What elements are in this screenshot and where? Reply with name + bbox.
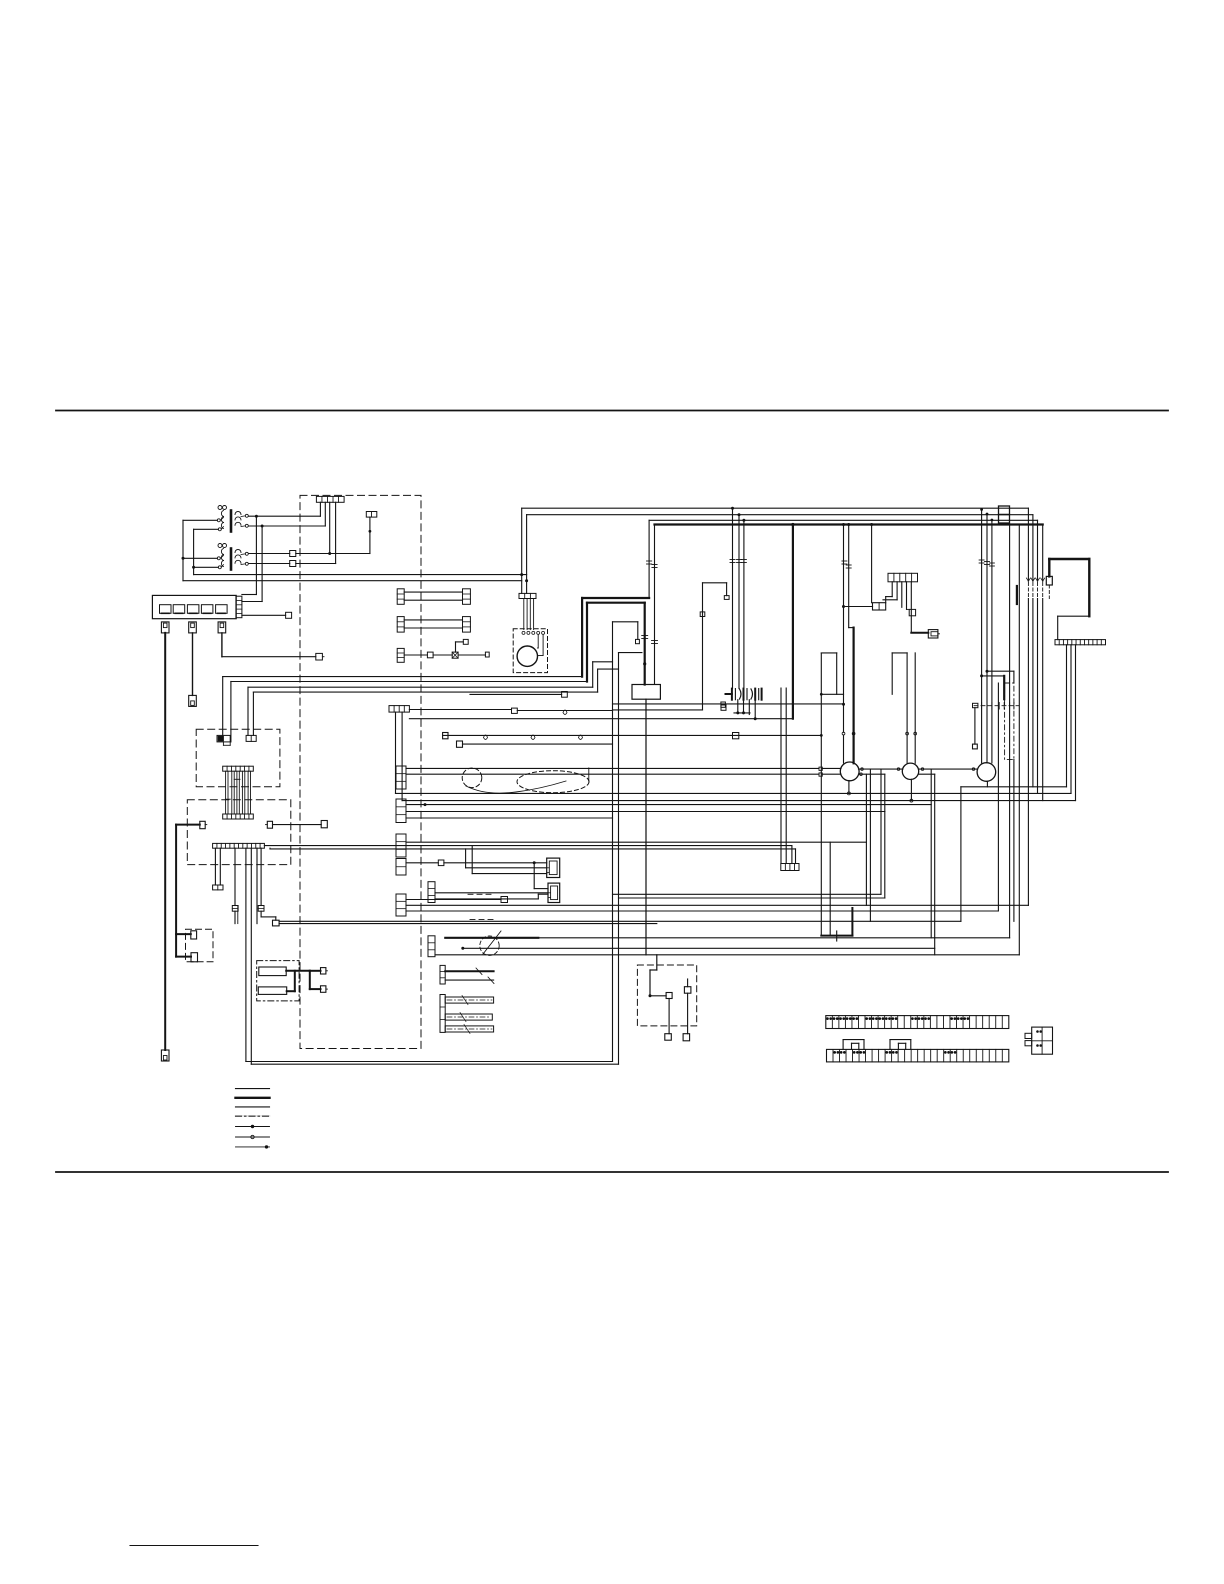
row 842 long: [406, 841, 866, 843]
connector D left: [200, 821, 207, 828]
plug2 jog v: [537, 894, 539, 899]
thick wire R2 out: [287, 990, 295, 992]
junction M4 tap2: [980, 674, 983, 677]
legend marker o: [251, 1135, 254, 1138]
array drop 3: [748, 700, 750, 715]
connector small mid: [512, 708, 518, 713]
strap loop 2: [890, 1040, 911, 1050]
plug drop v: [533, 863, 535, 889]
thick wire to F-b: [310, 988, 321, 990]
junction rail3 a: [742, 519, 745, 522]
thick hook right: [1088, 559, 1090, 616]
chain wire M2-M3: [859, 768, 903, 770]
connector tap 2: [700, 612, 705, 617]
lead 3 v: [221, 633, 223, 657]
thick stub right: [1003, 676, 1005, 699]
M3 feed 1: [906, 653, 908, 763]
fuse pigtail 1: [161, 622, 169, 633]
switch drop b: [687, 993, 689, 1033]
connector C1 end: [213, 885, 223, 890]
hook drop to comb: [1057, 616, 1059, 639]
drop C6: [260, 848, 262, 905]
pump terminals: [522, 631, 545, 634]
connector G3: [485, 652, 489, 657]
thick wire R1 out: [286, 970, 310, 972]
row 719: [409, 718, 793, 720]
junction M4 tap1: [986, 670, 989, 673]
junction thick box drop: [643, 662, 646, 665]
junction plug drop: [533, 861, 536, 864]
connector comb B lower: [223, 814, 254, 819]
switch end b: [683, 1034, 690, 1041]
corner drop 3: [1037, 520, 1039, 581]
lower comb feed long 2: [785, 688, 787, 864]
connector row744 left: [457, 741, 463, 747]
chain wire M3-M4: [919, 768, 978, 770]
legend marker x: [251, 1125, 254, 1128]
switch contact a: [666, 993, 672, 999]
connector break rail drops: [647, 561, 658, 568]
switch jog: [650, 969, 657, 971]
main rail 3: [649, 519, 1037, 521]
lead 3 terminal: [316, 653, 324, 660]
junction bus B: [192, 566, 195, 569]
thick wire D branch 1: [176, 933, 191, 935]
wire T2 coil left A: [183, 557, 217, 559]
dashed grommet 2: [480, 936, 499, 955]
bundle wire 2: [231, 681, 587, 683]
bundle wire 2 drop: [230, 682, 232, 742]
bundle wire 3 drop: [247, 687, 249, 735]
dash-dot box resistors: [257, 961, 299, 1001]
wire G3: [458, 654, 485, 656]
dashed box switch: [637, 965, 696, 1026]
left frame vertical 821: [820, 653, 822, 936]
connector on row 704: [721, 702, 726, 707]
row 898: [619, 897, 885, 899]
drop C5: [256, 848, 258, 923]
thick wire D branch 2: [176, 956, 191, 958]
drop trio 3: [743, 520, 745, 688]
motor M2: [840, 762, 859, 781]
array drop 1: [737, 700, 739, 713]
junction M4b: [986, 513, 989, 516]
horizontal rule bottom: [56, 1171, 1168, 1173]
wire to sensor T: [369, 517, 371, 553]
connector break hook: [642, 636, 658, 644]
relay block 2x2: [1025, 1027, 1053, 1054]
wire to plug2 b: [435, 898, 538, 900]
pump hook 2: [542, 634, 544, 655]
M3 top h: [892, 652, 907, 654]
bus B vertical: [193, 529, 195, 574]
ladder wires B: [225, 771, 250, 814]
corner drop 4: [1042, 525, 1044, 582]
connector pair black/white: [217, 735, 230, 745]
bottom frame wire 1: [246, 1061, 613, 1063]
junction 821 row735: [820, 734, 823, 737]
drop trio 2: [738, 515, 740, 689]
dash marks row 921: [470, 919, 493, 921]
feed thick 2: [587, 602, 645, 604]
wire to plug2: [435, 892, 548, 894]
wire fuse box out C: [242, 614, 286, 616]
wire T1 coil left A: [183, 519, 217, 521]
stack connector J left: [428, 882, 435, 903]
fuse pigtail 3: [218, 622, 226, 633]
chain terminals: [860, 768, 975, 776]
fr-comb drop 2: [1070, 645, 1072, 794]
connector D2: [191, 953, 198, 962]
pump wire 3: [529, 599, 531, 630]
stub 836: [836, 931, 838, 941]
tap h 676: [982, 675, 1005, 677]
drop lamp 1: [843, 525, 845, 733]
plug connector P: [928, 630, 939, 638]
connector comb C (12-way): [213, 843, 265, 848]
legend marker arrow: [265, 1145, 268, 1148]
inline connector C6: [258, 906, 264, 912]
drop lamp 2: [848, 525, 850, 628]
wire C6 h: [261, 916, 276, 918]
comb drop 1: [319, 502, 321, 516]
motor M1 fuel pump: [517, 646, 537, 666]
dashed tail 5: [1048, 585, 1050, 599]
inline connector B: [290, 561, 296, 567]
M4 feed 1: [986, 514, 988, 763]
junction M4a: [980, 508, 983, 511]
lead 2 terminal: [189, 695, 197, 706]
thick hook top: [1049, 558, 1089, 560]
connector array bracket: [732, 689, 762, 700]
comb drop 4: [335, 502, 337, 563]
junction array a: [736, 711, 739, 714]
row 905: [406, 904, 1028, 906]
connector break M4: [979, 560, 994, 566]
legend dash-dot sample: [236, 1115, 270, 1117]
dashed box diode: [186, 929, 214, 962]
wire to 2cell: [844, 606, 873, 608]
row 811: [406, 811, 885, 813]
return wire 1: [961, 786, 1067, 788]
dashed box connector group B: [196, 729, 280, 786]
wire to fuse box B: [261, 526, 263, 602]
row 845 long: [264, 845, 792, 847]
thick hook up: [1048, 559, 1050, 576]
switch stub b up: [687, 979, 689, 987]
connector comb B upper: [223, 766, 254, 771]
thick stub 852: [851, 908, 853, 936]
junction M4c: [991, 519, 994, 522]
noise filter G: [452, 652, 458, 658]
row 709b: [613, 709, 703, 711]
wire to plug1 b: [466, 867, 547, 869]
mid comb drop 1: [395, 712, 397, 793]
bundle wire 3: [248, 686, 593, 688]
row 804: [406, 804, 931, 806]
right drop 1 long: [1027, 599, 1029, 906]
connector break lamp: [842, 561, 851, 568]
terminal strip lower: [827, 1049, 1009, 1062]
horizontal rule top: [56, 410, 1168, 412]
wire H: [470, 693, 562, 695]
wire T2 out B: [249, 563, 290, 565]
fr-comb drop 3: [1075, 645, 1077, 801]
feed thick 1: [582, 597, 649, 599]
junction row804: [424, 803, 427, 806]
connector break trio: [730, 560, 746, 563]
junction coil out B: [261, 525, 264, 528]
wire coil T1 out A: [249, 515, 321, 517]
drop C4 long: [250, 848, 252, 1064]
wire to fuse box A2: [242, 594, 257, 596]
connector pair white: [246, 735, 256, 741]
arrow heads drops: [1026, 578, 1044, 581]
mid vertical 2: [618, 653, 620, 1065]
junction rail4 conn: [870, 523, 873, 526]
tap v2: [726, 583, 728, 596]
connector comb lower (4-way): [781, 864, 799, 871]
lamp2 jog: [849, 627, 854, 629]
connector F-a: [321, 968, 328, 974]
row 894: [613, 893, 882, 895]
junction array row719: [754, 717, 757, 720]
wire G2: [433, 654, 452, 656]
pump wire 1: [523, 599, 525, 630]
shield bar 1: [445, 996, 493, 1005]
row 954: [435, 954, 1019, 956]
resistor R2: [258, 987, 286, 995]
pump hook 2b: [538, 655, 544, 657]
r-comb drop 1 h: [886, 596, 893, 598]
riser thick 2: [586, 603, 588, 682]
drop chain 931: [930, 769, 932, 938]
right drop 3: [1037, 599, 1039, 794]
rail B horizontal: [194, 574, 527, 576]
thick wire D: [176, 824, 200, 826]
drop trio 1: [732, 508, 734, 688]
feed 4: [598, 668, 619, 670]
switch end a: [665, 1034, 672, 1041]
cable pair 1: [397, 589, 470, 605]
drop C1a: [214, 848, 216, 885]
vertical 830: [829, 842, 831, 935]
wire E: [273, 824, 322, 826]
M3 bottom drop: [910, 779, 912, 800]
dashed circle grommet: [462, 768, 482, 788]
junction array b: [742, 711, 745, 714]
pump feed 1: [521, 508, 523, 593]
junction rail A pump: [520, 573, 523, 576]
stack connector harness 2: [396, 799, 406, 823]
tap top h: [703, 582, 727, 584]
row 710: [517, 710, 612, 712]
bundle wire 4 drop: [252, 692, 254, 735]
drop C2c: [237, 906, 239, 924]
chain wire A2: [822, 767, 841, 769]
row 818: [406, 817, 613, 819]
bus A vertical: [182, 520, 184, 580]
riser thick 1: [581, 598, 583, 677]
wire T2 out A2: [296, 553, 370, 555]
connector tap: [724, 596, 729, 600]
twist mark row710: [563, 710, 567, 715]
connector comb far right (12-way): [1055, 640, 1106, 645]
row 899: [406, 899, 501, 901]
row 862 left: [406, 862, 438, 864]
connector comb top (5-way): [316, 496, 344, 502]
switch jog v: [649, 970, 651, 996]
ignition coil T1: [217, 506, 248, 532]
wire T1 coil left B: [194, 528, 219, 530]
corner drop 1: [1027, 508, 1029, 581]
inline connector A: [290, 551, 296, 557]
row898 riser: [884, 774, 886, 898]
row 713 short: [734, 712, 750, 714]
switch contact b: [684, 987, 691, 994]
drop conn 2cell: [871, 525, 873, 603]
drop chain 870: [869, 769, 871, 921]
wire to fuse box A: [255, 516, 257, 594]
pump connector: [519, 593, 536, 598]
hook bottom: [1058, 615, 1090, 617]
M3 feed terminals: [906, 732, 917, 735]
dashed ellipse harness: [517, 771, 589, 793]
drop chain 935: [934, 774, 936, 955]
right drop 4: [1042, 599, 1044, 801]
junction lamp1 b: [842, 703, 845, 706]
stub 1014: [1013, 671, 1015, 683]
lead 3 h: [222, 656, 316, 658]
pump wire 4: [533, 599, 535, 630]
rv 961: [960, 787, 962, 922]
mid v1 top hook: [613, 621, 638, 623]
junction T2A / comb drop: [328, 552, 331, 555]
fuse pigtail 2: [189, 622, 197, 633]
r-comb drop 5: [910, 582, 912, 633]
junction rail4 c1b: [847, 523, 850, 526]
thick row 937: [445, 937, 538, 939]
main rail 2: [527, 514, 1033, 516]
junction sensor stem: [369, 530, 372, 533]
junction rail1 a: [731, 507, 734, 510]
M2 bottom drop: [848, 781, 850, 794]
rail3 drop: [648, 520, 650, 598]
connector comb right (5-way): [888, 573, 918, 582]
frame v 836: [836, 653, 838, 694]
connector 975 end: [973, 744, 978, 749]
M4 feed 2: [991, 520, 993, 763]
thick wire to F-a: [310, 970, 321, 972]
wire G up h: [456, 641, 464, 643]
comb drop 3: [329, 502, 331, 553]
stack connector bottom left: [428, 936, 435, 957]
junction bus A: [182, 557, 185, 560]
legend lines: [236, 1089, 270, 1147]
connector E pair: [266, 821, 273, 828]
frame h 694: [821, 693, 843, 695]
mid v2 top hook: [619, 652, 642, 654]
r-comb drop 2 h: [883, 599, 897, 601]
connector G4: [463, 639, 468, 644]
plug drop h: [534, 888, 548, 890]
plug connector J1: [547, 858, 560, 877]
row 911: [406, 910, 998, 912]
thick link R2: [294, 971, 296, 991]
junction rail4 riser: [791, 523, 794, 526]
ignition coil T2: [217, 544, 248, 570]
battery lead 1: [164, 633, 166, 1050]
center drop 646: [645, 699, 647, 955]
M3 top v: [891, 653, 893, 694]
feed 3: [593, 661, 613, 663]
connector 2-cell: [873, 603, 886, 610]
strap loop 1: [843, 1040, 864, 1050]
wire T2 out B2: [296, 563, 336, 565]
switch junction: [649, 994, 652, 997]
array stub left: [726, 693, 732, 695]
twist marks row735: [484, 735, 583, 740]
row 709: [409, 709, 511, 711]
terminal sq B: [819, 773, 822, 776]
dashed box connector group C: [187, 800, 290, 865]
M2 feed terminals: [842, 732, 855, 735]
connector under array: [721, 705, 726, 710]
junction coil out A: [255, 515, 258, 518]
switch feed: [656, 955, 658, 970]
dashed drop tails: [1028, 583, 1042, 599]
fr-comb drop 1: [1066, 645, 1068, 787]
connector row735 left: [443, 733, 448, 739]
tap h 671: [987, 670, 1014, 672]
ellipse tick: [588, 768, 590, 781]
bottom frame wire 2: [251, 1063, 618, 1065]
connector C terminal: [286, 612, 292, 618]
resistor R1: [259, 967, 286, 976]
wire C6 v2: [275, 917, 277, 920]
wire to plug1 c: [472, 873, 547, 875]
rv 1014: [1013, 760, 1015, 922]
main rail 1: [522, 507, 1029, 509]
wire coil T1 out B: [249, 525, 326, 527]
riser thick main: [792, 525, 794, 719]
row 948: [463, 947, 935, 949]
r-comb drop 4: [906, 582, 908, 610]
drop 975: [974, 708, 976, 744]
main rail 4 thick: [655, 523, 1043, 525]
fuse box F1: [152, 595, 236, 618]
wire T2 out A: [249, 553, 290, 555]
array drop 2: [743, 700, 745, 713]
dashed box fuel pump: [513, 629, 547, 673]
rv 1019: [1018, 526, 1020, 955]
motor M3: [902, 763, 918, 779]
long row 924: [279, 923, 657, 925]
bolt terminal: [999, 506, 1010, 523]
chain wire M2 low: [859, 773, 885, 775]
connector bolt lead: [1046, 576, 1052, 585]
riser 4: [597, 669, 599, 692]
junction rail2 a: [738, 513, 741, 516]
comb drop 2: [324, 502, 326, 526]
sensor connector T: [366, 512, 377, 518]
r-comb drop 1: [891, 582, 893, 597]
pump hook 1: [537, 634, 539, 648]
drop chain 866: [865, 774, 867, 905]
junction frame: [820, 693, 823, 696]
footer underline: [130, 1545, 258, 1547]
drop C6b: [260, 911, 262, 917]
